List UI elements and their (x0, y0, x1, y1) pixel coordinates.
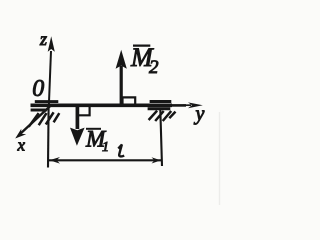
svg-text:x: x (17, 136, 26, 155)
svg-text:y: y (194, 103, 205, 125)
z axis arrowhead (48, 36, 55, 52)
label l length (118, 145, 124, 157)
moment M2 arrowhead (116, 50, 127, 69)
dimension right arrowhead (152, 157, 161, 163)
wire beam main horizontal line (31, 104, 173, 108)
right support lower plate (148, 107, 171, 110)
M2 right-angle square (123, 97, 136, 103)
moment M1 arrow shaft (76, 106, 80, 129)
moment M1 arrowhead (70, 128, 85, 146)
left support upper plate (35, 100, 59, 103)
right support hatching (149, 111, 176, 121)
svg-text:0: 0 (32, 76, 44, 102)
z axis line (49, 51, 51, 107)
dimension left arrowhead (49, 157, 60, 164)
right dimension extension line (160, 109, 162, 166)
faint page-edge artifact (219, 112, 221, 205)
right support upper plate (150, 100, 172, 103)
y axis arrowhead (188, 102, 203, 108)
y axis line (183, 104, 191, 106)
M1 overbar (86, 128, 101, 130)
M1 right-angle square (79, 106, 90, 115)
x axis arrowhead (15, 129, 26, 139)
x axis line (20, 106, 51, 135)
left support lower plate (31, 109, 47, 112)
svg-text:2: 2 (149, 57, 159, 78)
moment M2 arrow shaft (120, 66, 123, 105)
dimension line (49, 159, 161, 161)
svg-text:z: z (39, 29, 47, 49)
M2 overbar (133, 44, 150, 46)
left support hatching (29, 112, 60, 127)
left dimension extension line (47, 107, 50, 168)
svg-text:1: 1 (102, 140, 109, 155)
